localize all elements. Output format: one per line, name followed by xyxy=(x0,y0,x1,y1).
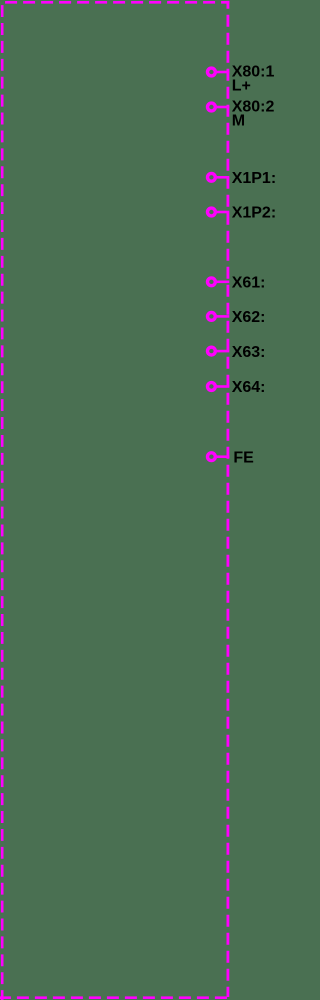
svg-text:X61:: X61: xyxy=(232,275,266,292)
PLC box outline: left border xyxy=(1,5,4,1000)
svg-text:M: M xyxy=(232,113,245,130)
svg-text:X1P2:: X1P2: xyxy=(232,205,276,222)
wire FE xyxy=(217,455,230,458)
connection point X61 circle xyxy=(208,278,216,286)
PLC box outline: bottom border xyxy=(0,996,229,999)
connection point X1P1 circle xyxy=(208,173,216,181)
svg-text:X63:: X63: xyxy=(232,344,266,361)
wire X64 xyxy=(217,385,230,388)
connection point FE circle xyxy=(208,453,216,461)
wire X1P2 xyxy=(217,211,230,214)
connection point X62 circle xyxy=(208,313,216,321)
wire X1P1 xyxy=(217,176,230,179)
PLC box outline: right border xyxy=(226,1,229,997)
svg-text:L+: L+ xyxy=(232,78,251,95)
wire X80:2 xyxy=(217,106,230,109)
svg-text:X1P1:: X1P1: xyxy=(232,170,276,187)
connection point X80:2 circle xyxy=(208,103,216,111)
wire X63 xyxy=(217,350,230,353)
svg-text:X62:: X62: xyxy=(232,309,266,326)
connection point X80:1 circle xyxy=(208,68,216,76)
PLC box outline: top border xyxy=(5,1,229,4)
wire X61 xyxy=(217,280,230,283)
wire X80:1 xyxy=(217,71,230,74)
wire X62 xyxy=(217,315,230,318)
connection point X63 circle xyxy=(208,347,216,355)
svg-text:FE: FE xyxy=(233,449,254,466)
svg-text:X64:: X64: xyxy=(232,379,266,396)
connection point X1P2 circle xyxy=(208,208,216,216)
connection point X64 circle xyxy=(208,383,216,391)
